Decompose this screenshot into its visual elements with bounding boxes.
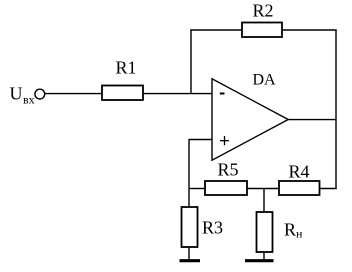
- op-amp DA: [212, 72, 288, 161]
- node junction R5-R4 vertical wire to Rn: [263, 189, 265, 213]
- svg-text:R5: R5: [218, 160, 239, 180]
- svg-text:R4: R4: [289, 161, 310, 181]
- wire left vertical to bottom net: [188, 139, 190, 207]
- wire input to R1: [45, 93, 102, 95]
- input terminal circle: [35, 89, 45, 99]
- wire top left to R2: [190, 29, 242, 31]
- resistor R4: [279, 161, 320, 195]
- node Uvx input label: [10, 84, 35, 107]
- wire feedback left vertical: [190, 30, 192, 94]
- wire R3 to ground: [188, 247, 190, 260]
- resistor R1: [102, 58, 143, 101]
- svg-text:R: R: [284, 219, 296, 239]
- wire R4 to right vertical: [320, 188, 337, 190]
- resistor Rn load: [257, 212, 304, 252]
- svg-text:DA: DA: [253, 72, 277, 89]
- svg-text:вх: вх: [23, 92, 35, 106]
- svg-text:U: U: [10, 84, 23, 104]
- wire op-amp output: [288, 119, 336, 121]
- resistor R5: [205, 160, 247, 195]
- ground under Rn: [245, 259, 274, 262]
- resistor R2: [242, 0, 282, 37]
- wire non-inverting input horizontal: [189, 139, 212, 141]
- wire Rn to ground: [263, 252, 265, 260]
- resistor R3: [182, 207, 224, 247]
- wire right vertical feedback: [335, 30, 337, 190]
- wire R5 to R4: [247, 188, 279, 190]
- ground under R3: [180, 259, 201, 262]
- svg-text:н: н: [296, 226, 303, 240]
- svg-text:R2: R2: [253, 0, 274, 20]
- wire R1 to op-amp inverting input: [143, 93, 212, 95]
- wire R2 to right vertical: [282, 29, 337, 31]
- wire bottom net left to R5: [189, 188, 205, 190]
- svg-text:R1: R1: [116, 58, 137, 78]
- svg-text:R3: R3: [202, 217, 223, 237]
